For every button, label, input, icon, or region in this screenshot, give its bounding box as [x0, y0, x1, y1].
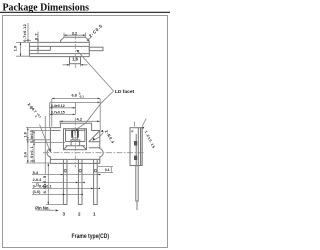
- LD unit inner walls: [66, 129, 85, 142]
- band: [66, 145, 85, 147]
- svg-text:6.0±0.5: 6.0±0.5: [42, 175, 47, 193]
- svg-text:6.8: 6.8: [72, 93, 77, 97]
- angle annotation 2-R: [93, 133, 103, 141]
- pedestal: [73, 138, 77, 140]
- LD facet leader to top view: [77, 51, 113, 91]
- svg-text:Package Dimensions: Package Dimensions: [3, 2, 90, 13]
- feet: [71, 142, 80, 146]
- plus mark: [131, 130, 134, 133]
- shoulder line left: [50, 130, 60, 132]
- border frame: [3, 16, 168, 248]
- svg-text:LD facet: LD facet: [115, 89, 135, 95]
- side view body: [130, 128, 141, 166]
- leads: [63, 163, 97, 204]
- svg-text:Frame type(CD): Frame type(CD): [72, 233, 110, 240]
- svg-text:1.8: 1.8: [23, 132, 27, 137]
- sub box: [71, 140, 80, 142]
- plinth flares: [64, 146, 87, 150]
- top view lead: [89, 47, 103, 51]
- dim 0.4 right: [98, 167, 113, 173]
- side annotation 1.2±0.15: [142, 119, 146, 127]
- lead holes: [64, 170, 66, 172]
- svg-text:3.4: 3.4: [23, 151, 27, 157]
- side pin: [136, 166, 138, 201]
- inner pin: [135, 134, 137, 166]
- top view body outline: [29, 41, 89, 57]
- center line horizontal: [43, 152, 144, 154]
- svg-text:0.7±0.12: 0.7±0.12: [23, 24, 27, 42]
- ledge line: [66, 129, 85, 131]
- top view tab (LD): [70, 57, 81, 64]
- svg-text:0.4: 0.4: [105, 168, 110, 172]
- top view cap with chamfers: [61, 37, 90, 42]
- frame bend line: [50, 158, 99, 160]
- svg-text:(1.6): (1.6): [33, 190, 42, 194]
- front view outline: [47, 123, 103, 163]
- title underline: [0, 11, 170, 13]
- lead stubs above bottom: [63, 160, 97, 164]
- svg-text:3.7±0.15: 3.7±0.15: [51, 110, 65, 114]
- LD chip: [71, 130, 79, 138]
- LD facet leader to front view: [76, 91, 114, 130]
- svg-text:1.9: 1.9: [14, 46, 18, 51]
- LD unit outer rect: [64, 129, 87, 150]
- center line vertical: [74, 118, 76, 168]
- svg-text:3.2: 3.2: [72, 30, 78, 35]
- svg-text:2-0.4: 2-0.4: [33, 178, 43, 182]
- svg-text:4.2: 4.2: [77, 117, 83, 122]
- right wing lines: [89, 131, 100, 148]
- top view center line: [74, 35, 76, 69]
